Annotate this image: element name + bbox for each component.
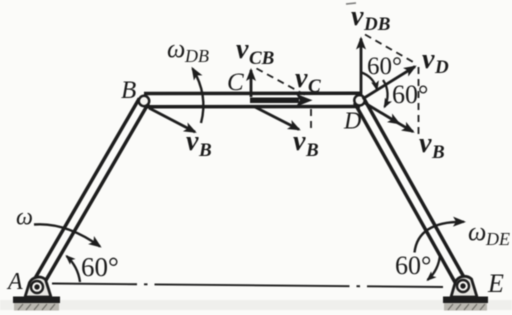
- svg-text:C: C: [227, 69, 244, 96]
- svg-text:DB: DB: [363, 14, 390, 35]
- svg-text:B: B: [198, 140, 212, 161]
- svg-text:v: v: [419, 128, 432, 159]
- svg-text:B: B: [431, 142, 445, 163]
- svg-text:A: A: [6, 269, 23, 295]
- svg-text:B: B: [305, 140, 319, 161]
- svg-text:v: v: [351, 1, 364, 32]
- svg-text:v: v: [236, 34, 249, 65]
- svg-text:60°: 60°: [395, 251, 431, 280]
- svg-text:60°: 60°: [392, 80, 428, 109]
- svg-text:60°: 60°: [81, 252, 119, 282]
- svg-text:DB: DB: [184, 46, 209, 66]
- svg-text:v: v: [295, 63, 308, 94]
- svg-text:ω: ω: [167, 34, 185, 63]
- svg-text:v: v: [293, 126, 306, 157]
- svg-text:DE: DE: [485, 229, 510, 249]
- svg-text:C: C: [308, 76, 321, 97]
- svg-text:CB: CB: [249, 48, 274, 69]
- svg-text:v: v: [422, 44, 435, 75]
- svg-text:D: D: [343, 109, 361, 135]
- svg-text:B: B: [121, 77, 136, 104]
- svg-text:60°: 60°: [367, 53, 402, 80]
- svg-text:ω: ω: [468, 217, 486, 246]
- svg-text:v: v: [186, 126, 199, 157]
- svg-text:D: D: [434, 57, 449, 78]
- svg-text:ω: ω: [16, 205, 33, 231]
- svg-text:E: E: [487, 269, 504, 298]
